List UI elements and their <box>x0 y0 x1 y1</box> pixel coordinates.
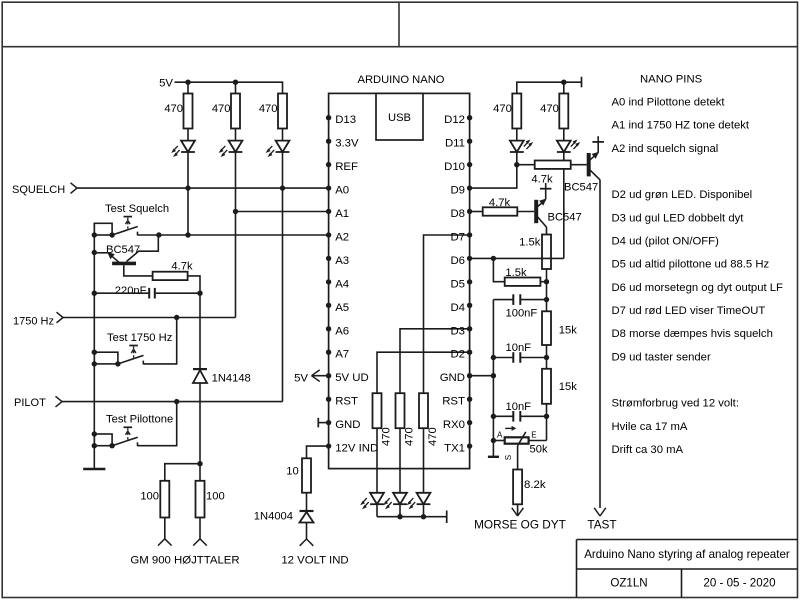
capacitor 10nF (1) <box>493 342 546 363</box>
resistor 8.2k <box>513 470 546 505</box>
svg-text:1.5k: 1.5k <box>519 236 541 248</box>
pin A6 (left) <box>326 325 349 337</box>
ground terminal at GND pin <box>318 418 328 428</box>
wire Q2 collector to TAST <box>599 180 601 508</box>
node 1750 Hz input <box>13 312 63 327</box>
wire switch to 1750 line <box>143 318 176 364</box>
svg-text:5V UD: 5V UD <box>335 372 369 384</box>
pushbutton Test Squelch <box>94 203 169 238</box>
wire SQUELCH to A0 <box>77 187 329 189</box>
pin A3 (left) <box>326 255 349 267</box>
LED (D6) <box>557 140 580 153</box>
pin 5V UD (left) <box>326 372 369 384</box>
pin RST (left) <box>326 396 358 408</box>
svg-text:OZ1LN: OZ1LN <box>610 577 647 590</box>
svg-text:12V IND: 12V IND <box>335 443 378 455</box>
resistor 15k (1) <box>542 311 577 369</box>
svg-text:D10: D10 <box>444 161 465 173</box>
svg-text:A1 ind 1750 HZ tone detekt: A1 ind 1750 HZ tone detekt <box>612 120 750 132</box>
wire LED3 to PILOT line <box>280 152 285 402</box>
LED red (bottom) <box>407 493 431 517</box>
wire GND to bus <box>470 373 496 378</box>
svg-text:D3: D3 <box>450 325 465 337</box>
pin D2 (right) <box>450 349 472 361</box>
svg-text:USB: USB <box>388 112 411 124</box>
svg-text:S: S <box>504 455 513 460</box>
wire wiper <box>517 446 519 470</box>
resistor 1.5k (vertical) <box>519 235 551 282</box>
pin D7 (right) <box>450 232 472 244</box>
ground <box>83 468 105 470</box>
pin A1 (left) <box>326 208 349 220</box>
transistor Q2 BC547 <box>564 136 604 193</box>
svg-text:MORSE OG DYT: MORSE OG DYT <box>474 518 566 532</box>
svg-text:A2: A2 <box>335 232 349 244</box>
pin A4 (left) <box>326 278 349 290</box>
wire LED2 to 1750 line <box>233 152 238 318</box>
wire D9 to LED junction <box>470 152 520 188</box>
junction <box>92 361 97 366</box>
junction <box>544 414 549 419</box>
junction <box>197 291 202 296</box>
wire 5V rail <box>175 80 283 94</box>
resistor 470 (D9 LED) <box>493 94 521 141</box>
pin REF (left) <box>326 161 358 173</box>
LED green (bottom) <box>360 493 384 517</box>
svg-text:TX1: TX1 <box>444 443 465 455</box>
pin GND (left) <box>326 419 361 431</box>
wire left rail <box>93 223 95 469</box>
pin notes text column <box>612 73 784 456</box>
resistor 470 (1750 ind) <box>212 82 240 140</box>
svg-text:Test 1750 Hz: Test 1750 Hz <box>107 332 173 344</box>
wire LED1 to A2 line <box>185 152 190 238</box>
wire <box>165 464 200 481</box>
svg-text:470: 470 <box>540 103 559 115</box>
pin D8 (right) <box>450 208 472 220</box>
pin A2 (left) <box>326 232 349 244</box>
wire A1 <box>236 211 329 213</box>
pin D12 (right) <box>444 114 472 126</box>
svg-text:D6: D6 <box>450 255 465 267</box>
svg-text:D2 ud grøn LED. Disponibel: D2 ud grøn LED. Disponibel <box>612 189 753 201</box>
pin 12V IND (left) <box>326 443 378 455</box>
svg-text:470: 470 <box>380 427 392 446</box>
svg-text:RST: RST <box>335 396 358 408</box>
wire Q3 collector <box>546 227 548 234</box>
svg-text:A0 ind Pilottone detekt: A0 ind Pilottone detekt <box>612 96 726 108</box>
svg-text:100: 100 <box>206 490 225 502</box>
svg-text:GM 900 HØJTTALER: GM 900 HØJTTALER <box>130 555 239 567</box>
pin D5 (right) <box>450 278 472 290</box>
svg-text:REF: REF <box>335 161 358 173</box>
node 5V (5V UD output) <box>294 370 329 384</box>
svg-text:BC547: BC547 <box>548 211 582 223</box>
pin D10 (right) <box>444 161 472 173</box>
svg-text:Drift ca 30 mA: Drift ca 30 mA <box>612 444 684 456</box>
open terminal <box>193 518 207 546</box>
transistor Q1 BC547 <box>94 235 158 276</box>
svg-text:10: 10 <box>286 465 298 477</box>
svg-text:D5 ud altid pilottone ud 88.5: D5 ud altid pilottone ud 88.5 Hz <box>612 259 770 271</box>
ground <box>488 456 499 458</box>
svg-text:GND: GND <box>335 419 360 431</box>
svg-text:D9 ud taster sender: D9 ud taster sender <box>612 351 711 363</box>
svg-text:PILOT: PILOT <box>14 397 46 409</box>
resistor 470 (D6 LED) <box>540 82 568 141</box>
svg-text:3.3V: 3.3V <box>335 138 359 150</box>
pin D3 (right) <box>450 325 472 337</box>
resistor 4.7k (Q3 base) <box>470 197 535 216</box>
USB connector <box>376 93 423 140</box>
pin RX0 (right) <box>443 419 472 431</box>
svg-text:D13: D13 <box>335 114 356 126</box>
svg-text:1N4148: 1N4148 <box>212 372 251 384</box>
svg-text:D12: D12 <box>444 114 465 126</box>
svg-text:D6 ud morsetegn og dyt output: D6 ud morsetegn og dyt output LF <box>612 282 784 294</box>
resistor 100 (left) <box>140 481 169 518</box>
wire D2 to internal resistor <box>377 352 470 393</box>
svg-text:A3: A3 <box>335 255 349 267</box>
pin RST (right) <box>442 396 472 408</box>
svg-text:A5: A5 <box>335 302 349 314</box>
resistor 470 (LED driver c) <box>419 393 439 493</box>
svg-text:A1: A1 <box>335 208 349 220</box>
svg-text:470: 470 <box>493 103 512 115</box>
svg-text:A2 ind squelch signal: A2 ind squelch signal <box>612 143 719 155</box>
svg-text:D2: D2 <box>450 349 465 361</box>
node PILOT input <box>14 396 62 409</box>
svg-text:D9: D9 <box>450 185 465 197</box>
LED (pilot ind) <box>266 141 290 157</box>
pin 3.3V (left) <box>326 138 359 150</box>
junction <box>92 250 97 255</box>
pin GND (right) <box>440 372 473 384</box>
svg-text:4.7k: 4.7k <box>489 197 511 209</box>
wire left bus <box>492 300 494 457</box>
pin D13 (left) <box>326 114 356 126</box>
node TAST output <box>587 508 616 532</box>
svg-text:D7 ud rød LED viser TimeOUT: D7 ud rød LED viser TimeOUT <box>612 305 766 317</box>
junction <box>544 297 549 302</box>
svg-text:A6: A6 <box>335 325 349 337</box>
LED (squelch ind) <box>171 141 195 157</box>
wire <box>199 293 201 369</box>
svg-text:470: 470 <box>427 427 439 446</box>
wire <box>546 416 548 440</box>
wire + arrow <box>512 504 524 516</box>
transistor Q3 BC547 <box>536 183 582 227</box>
wire 12V IND <box>307 446 329 458</box>
pin A5 (left) <box>326 302 349 314</box>
svg-text:100nF: 100nF <box>506 308 538 320</box>
svg-text:470: 470 <box>259 103 278 115</box>
junction <box>491 355 496 360</box>
svg-text:D8 morse dæmpes hvis squelch: D8 morse dæmpes hvis squelch <box>612 328 773 340</box>
svg-text:10nF: 10nF <box>506 342 532 354</box>
junction <box>544 355 549 360</box>
svg-text:D4 ud (pilot ON/OFF): D4 ud (pilot ON/OFF) <box>612 235 720 247</box>
resistor 470 (LED driver b) <box>396 393 416 493</box>
resistor 4.7k (base) <box>153 261 193 281</box>
svg-text:Test Pilottone: Test Pilottone <box>106 413 173 425</box>
wire D6 net <box>470 256 564 261</box>
wire switch to PILOT line <box>138 402 177 446</box>
LED (1750 ind) <box>219 141 243 157</box>
svg-text:Test Squelch: Test Squelch <box>105 203 169 215</box>
capacitor 10nF (2) <box>493 401 546 422</box>
svg-text:D11: D11 <box>445 138 465 150</box>
svg-text:10nF: 10nF <box>506 401 532 413</box>
junction <box>92 443 97 448</box>
svg-text:RX0: RX0 <box>443 419 465 431</box>
potentiometer 50k <box>493 426 548 460</box>
svg-text:A0: A0 <box>335 185 349 197</box>
svg-text:D3 ud gul LED dobbelt dyt: D3 ud gul LED dobbelt dyt <box>612 212 745 224</box>
junction <box>544 279 549 284</box>
capacitor 220nF <box>94 285 200 298</box>
junction <box>92 232 97 237</box>
svg-text:1N4004: 1N4004 <box>254 510 293 522</box>
wire right bus <box>546 282 548 312</box>
svg-text:A: A <box>497 431 503 440</box>
title block <box>577 540 798 598</box>
svg-text:470: 470 <box>164 103 183 115</box>
IC U1 Arduino Nano <box>329 74 470 469</box>
wire PILOT <box>62 399 283 404</box>
svg-text:50k: 50k <box>530 444 548 456</box>
svg-text:Hvile ca 17 mA: Hvile ca 17 mA <box>612 421 688 433</box>
pin TX1 (right) <box>444 443 472 455</box>
pin A7 (left) <box>326 349 349 361</box>
capacitor 100nF <box>493 294 546 319</box>
open terminal <box>158 518 172 546</box>
resistor 4.7k (Q2 base) <box>517 161 587 186</box>
svg-text:D7: D7 <box>450 232 465 244</box>
resistor 1.5k (horizontal) <box>505 267 547 286</box>
resistor 10 <box>286 458 311 492</box>
svg-text:220nF: 220nF <box>115 285 147 297</box>
svg-text:NANO PINS: NANO PINS <box>640 73 703 85</box>
resistor 470 (pilot ind) <box>259 94 287 141</box>
pin D9 (right) <box>450 185 472 197</box>
resistor 470 (LED driver a) <box>373 393 393 493</box>
wire <box>306 493 308 511</box>
wire D6 LED column <box>563 152 565 258</box>
svg-text:SQUELCH: SQUELCH <box>12 184 65 196</box>
LED (D9) <box>510 140 533 153</box>
svg-text:20 - 05 - 2020: 20 - 05 - 2020 <box>703 577 775 590</box>
svg-text:1.5k: 1.5k <box>505 267 527 279</box>
pin D4 (right) <box>450 302 472 314</box>
pushbutton Test Pilottone <box>92 413 174 448</box>
svg-text:4.7k: 4.7k <box>531 174 553 186</box>
LED yellow (bottom) <box>383 493 407 517</box>
diode 1N4004 <box>254 510 314 522</box>
resistor 100 (right) <box>196 481 225 518</box>
svg-text:D5: D5 <box>450 278 465 290</box>
svg-text:15k: 15k <box>559 325 577 337</box>
wire diode to speaker resistors <box>197 383 202 481</box>
junction <box>92 291 97 296</box>
svg-text:RST: RST <box>442 396 465 408</box>
svg-text:BC547: BC547 <box>564 181 598 193</box>
resistor 15k (2) <box>542 369 577 417</box>
pin A0 (left) <box>326 185 349 197</box>
svg-text:470: 470 <box>212 103 231 115</box>
svg-text:5V: 5V <box>159 77 173 89</box>
node SQUELCH input <box>12 183 77 196</box>
wire 1750 Hz <box>63 315 236 320</box>
wire + open terminal <box>300 523 314 546</box>
svg-text:GND: GND <box>440 372 465 384</box>
svg-text:A4: A4 <box>335 278 349 290</box>
svg-text:Strømforbrug ved 12 volt:: Strømforbrug ved 12 volt: <box>612 398 739 410</box>
svg-text:15k: 15k <box>559 381 577 393</box>
svg-text:12 VOLT IND: 12 VOLT IND <box>281 554 348 566</box>
svg-text:ARDUINO NANO: ARDUINO NANO <box>357 74 444 86</box>
svg-text:E: E <box>531 431 536 440</box>
resistor 470 (squelch ind) <box>164 82 192 140</box>
wire LED cathodes to terminal <box>377 511 447 524</box>
svg-text:Arduino Nano styring af analog: Arduino Nano styring af analog repeater <box>584 548 790 561</box>
svg-text:100: 100 <box>140 490 159 502</box>
svg-text:TAST: TAST <box>587 518 616 532</box>
svg-text:8.2k: 8.2k <box>524 479 546 491</box>
svg-text:D8: D8 <box>450 208 465 220</box>
svg-text:5V: 5V <box>294 372 308 384</box>
wire D3 to internal resistor <box>400 329 470 393</box>
svg-text:A7: A7 <box>335 349 349 361</box>
svg-text:D4: D4 <box>450 302 465 314</box>
junction <box>491 414 496 419</box>
svg-text:470: 470 <box>403 427 415 446</box>
wire D7 to internal resistor <box>424 235 470 393</box>
wire <box>493 258 504 281</box>
wire 4.7k to diode column <box>188 276 200 293</box>
wire switch to A2 <box>138 232 329 237</box>
diode 1N4148 <box>193 369 251 384</box>
svg-text:4.7k: 4.7k <box>171 261 193 273</box>
wire 5V rail (right) <box>517 77 582 94</box>
pin D6 (right) <box>450 255 472 267</box>
svg-text:1750 Hz: 1750 Hz <box>13 315 54 327</box>
junction <box>491 438 496 443</box>
pin D11 (right) <box>445 138 472 150</box>
pushbutton Test 1750 Hz <box>92 332 173 367</box>
